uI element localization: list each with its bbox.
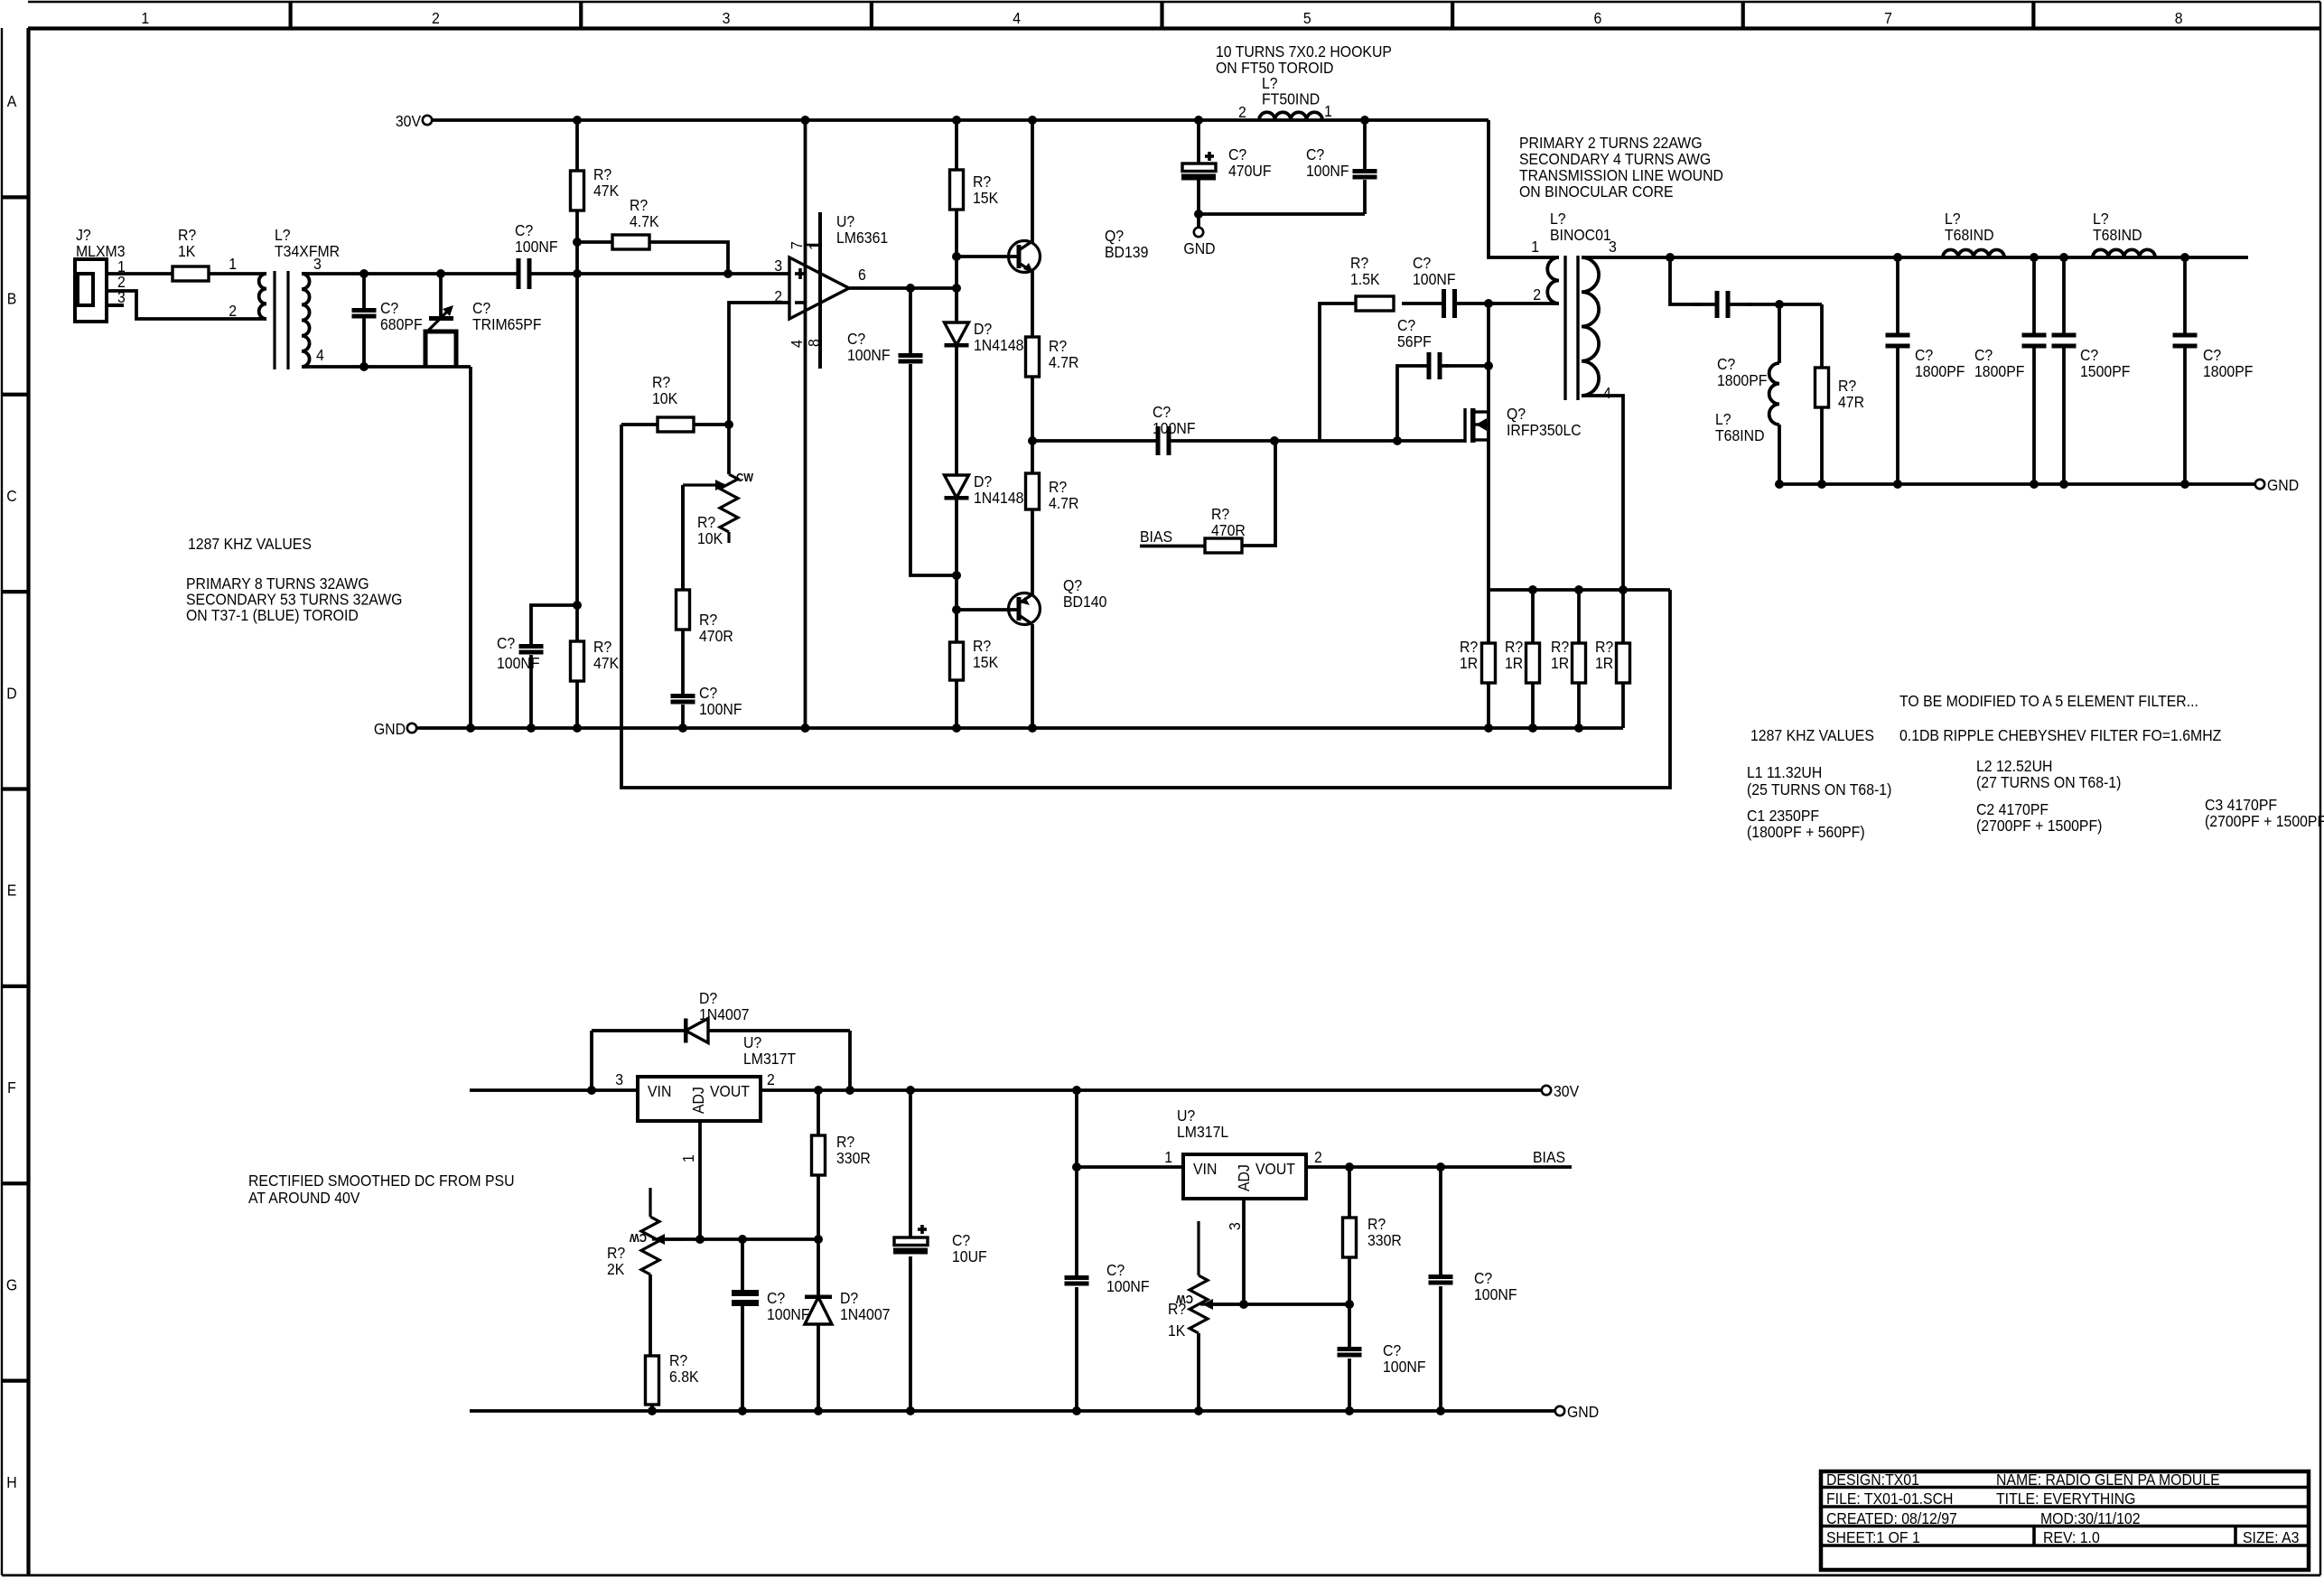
svg-text:100NF: 100NF <box>497 654 540 672</box>
svg-text:2: 2 <box>1533 285 1541 303</box>
node pin4-GND <box>801 724 810 733</box>
svg-text:SIZE: A3: SIZE: A3 <box>2243 1528 2299 1546</box>
svg-text:CREATED: 08/12/97: CREATED: 08/12/97 <box>1826 1509 1957 1527</box>
svg-text:TO BE MODIFIED TO A 5 ELEMENT: TO BE MODIFIED TO A 5 ELEMENT FILTER... <box>1899 692 2198 710</box>
wire divider chain upper <box>955 257 958 322</box>
connector J? MLXM3 <box>75 226 126 322</box>
svg-text:1R: 1R <box>1551 654 1569 672</box>
svg-text:AT AROUND 40V: AT AROUND 40V <box>248 1189 360 1207</box>
wire BINOC pin3 to filter <box>1582 256 2248 259</box>
capacitor C? 1500PF shunt <box>2052 253 2131 489</box>
note text L1 <box>1747 763 1891 798</box>
svg-text:100NF: 100NF <box>767 1305 810 1323</box>
node rail-15K <box>952 116 961 125</box>
svg-text:1287 KHZ VALUES: 1287 KHZ VALUES <box>1750 726 1874 744</box>
wire feedback sense <box>621 425 1670 788</box>
svg-text:15K: 15K <box>973 653 999 671</box>
note text C2 <box>1976 800 2102 835</box>
svg-text:3: 3 <box>615 1070 623 1088</box>
node gate line-bias <box>1270 436 1279 445</box>
label C? 470UF <box>1228 145 1272 180</box>
wire divider chain to BD140 base <box>955 575 958 642</box>
svg-text:REV: 1.0: REV: 1.0 <box>2043 1528 2100 1546</box>
wire LM317L VIN line <box>1077 1165 1183 1169</box>
note text C1 <box>1747 807 1865 841</box>
resistor R? 4.7R lower <box>1026 441 1079 512</box>
svg-text:GND: GND <box>2267 476 2299 494</box>
svg-text:VIN: VIN <box>648 1082 671 1100</box>
svg-text:2K: 2K <box>607 1260 625 1278</box>
transistor Q? BD140 <box>957 509 1106 728</box>
svg-text:100NF: 100NF <box>1383 1358 1426 1376</box>
wire ADJ node line <box>661 1237 818 1241</box>
wire PSU input line <box>470 1088 638 1092</box>
node pin2-10K <box>724 420 733 429</box>
node drain-1.5K line <box>1484 299 1493 308</box>
svg-text:GND: GND <box>374 720 406 738</box>
power input GND terminal (470UF) <box>1181 120 1216 214</box>
node 47K-4.7K junction <box>573 238 582 247</box>
svg-text:1: 1 <box>1531 238 1539 256</box>
wire gate line <box>1274 439 1465 443</box>
svg-text:470R: 470R <box>1211 521 1246 539</box>
resistor R? 10K feedback <box>621 373 729 432</box>
svg-text:GND: GND <box>1183 239 1215 257</box>
svg-text:T68IND: T68IND <box>1945 226 1994 244</box>
note text L2 <box>1976 757 2121 791</box>
resistor R? 1R d <box>1595 590 1630 728</box>
svg-text:1R: 1R <box>1595 654 1613 672</box>
inductor L? T68IND tank <box>1715 304 1779 484</box>
wire op-amp output pin6 <box>849 286 957 290</box>
svg-text:VOUT: VOUT <box>1255 1160 1295 1178</box>
resistor R? 470R bias feed <box>1205 441 1275 553</box>
resistor R? 47K top bias <box>571 120 620 242</box>
node pin3-680PF <box>359 269 369 278</box>
node pin4-680PF <box>359 362 369 371</box>
svg-text:7: 7 <box>1884 9 1892 27</box>
svg-text:FILE: TX01-01.SCH: FILE: TX01-01.SCH <box>1826 1489 1953 1508</box>
svg-text:2: 2 <box>1238 103 1246 121</box>
capacitor C? 100NF output coupling <box>1032 403 1274 455</box>
wire op-amp pin2 <box>729 303 789 425</box>
svg-text:R?: R? <box>1168 1300 1186 1318</box>
node 1R-gnd c <box>1574 724 1583 733</box>
inductor L? T68IND filter 1 <box>1943 210 2004 257</box>
svg-text:1: 1 <box>679 1154 697 1162</box>
svg-text:1K: 1K <box>1168 1321 1186 1340</box>
node bias-100NF <box>1436 1162 1445 1172</box>
svg-text:1R: 1R <box>1505 654 1523 672</box>
net label BIAS right <box>1528 1148 1572 1167</box>
svg-text:NAME: RADIO GLEN PA MODULE: NAME: RADIO GLEN PA MODULE <box>1996 1471 2220 1489</box>
svg-text:100NF: 100NF <box>847 346 891 364</box>
capacitor C? 100NF op-amp output snubber <box>847 288 957 575</box>
svg-text:ON FT50 TOROID: ON FT50 TOROID <box>1216 59 1333 77</box>
node gnd-100NF <box>527 724 536 733</box>
svg-text:L1 11.32UH: L1 11.32UH <box>1747 763 1822 781</box>
svg-text:1R: 1R <box>1460 654 1478 672</box>
svg-text:VIN: VIN <box>1193 1160 1217 1178</box>
resistor R? 330R adj upper <box>812 1090 871 1239</box>
resistor R? 1R c <box>1551 590 1586 728</box>
svg-text:6: 6 <box>1594 9 1602 27</box>
svg-text:GND: GND <box>1567 1403 1599 1421</box>
diode D? 1N4148 lower <box>945 472 1024 575</box>
svg-text:1: 1 <box>1164 1148 1172 1166</box>
node lm317l-vin <box>1072 1162 1081 1172</box>
node 56PF-drain <box>1484 361 1493 370</box>
wire MLXM3 pin2 to T34XFMR pin2 <box>107 291 245 319</box>
svg-text:100NF: 100NF <box>699 700 742 718</box>
svg-text:F: F <box>7 1078 16 1097</box>
svg-text:CW: CW <box>736 471 753 484</box>
resistor R? 1R b <box>1505 590 1540 728</box>
svg-text:3: 3 <box>1226 1222 1244 1230</box>
svg-text:ADJ: ADJ <box>689 1087 707 1114</box>
svg-text:FT50IND: FT50IND <box>1262 90 1320 108</box>
svg-text:(2700PF + 1500PF): (2700PF + 1500PF) <box>2205 812 2324 830</box>
potentiometer R? 2K <box>607 1188 685 1356</box>
svg-text:T34XFMR: T34XFMR <box>275 242 340 260</box>
svg-text:47R: 47R <box>1838 393 1864 411</box>
capacitor C? 100NF adj bypass <box>732 1235 810 1415</box>
svg-text:4.7R: 4.7R <box>1049 494 1078 512</box>
note text 1287 KHZ VALUES left <box>188 535 312 553</box>
svg-text:1500PF: 1500PF <box>2080 362 2130 380</box>
wire T34XFMR pin4 line <box>302 365 471 369</box>
node divider-BD140 base <box>952 605 961 614</box>
svg-text:(1800PF + 560PF): (1800PF + 560PF) <box>1747 823 1865 841</box>
node output-emitters <box>1028 436 1037 445</box>
svg-text:0.1DB RIPPLE CHEBYSHEV FILTER: 0.1DB RIPPLE CHEBYSHEV FILTER FO=1.6MHZ <box>1899 726 2221 744</box>
node rail-100NF <box>1360 116 1369 125</box>
node src-1R3 <box>1574 585 1583 594</box>
resistor R? 4.7R upper <box>1026 337 1079 377</box>
svg-text:E: E <box>7 882 17 900</box>
node gnd-divider <box>952 724 961 733</box>
wire MLXM3 pin1 to R? 1K <box>107 272 173 275</box>
note text TO BE MODIFIED <box>1899 692 2198 710</box>
svg-text:ADJ: ADJ <box>1235 1164 1253 1191</box>
node vin-diode <box>587 1086 596 1095</box>
node 1R-gnd a <box>1484 724 1493 733</box>
note text RECTIFIED SMOOTHED DC <box>248 1172 515 1207</box>
svg-text:T68IND: T68IND <box>1715 426 1765 444</box>
node 6.8K-gnd <box>648 1406 657 1415</box>
regulator U? LM317T <box>615 1033 796 1239</box>
svg-text:100NF: 100NF <box>1306 162 1349 180</box>
svg-text:100NF: 100NF <box>1106 1277 1150 1295</box>
node adj2-tap <box>1239 1300 1248 1309</box>
svg-text:BD140: BD140 <box>1063 593 1106 611</box>
node gnd-trimmer <box>466 724 475 733</box>
wire rail to BINOC pin1 <box>1489 120 1554 257</box>
svg-text:LM6361: LM6361 <box>836 229 888 247</box>
node gnd-47K <box>573 724 582 733</box>
svg-text:30V: 30V <box>396 112 422 130</box>
transformer L? T34XFMR <box>229 226 340 369</box>
transformer L? BINOC01 <box>1531 210 1617 402</box>
svg-text:MOD:30/11/102: MOD:30/11/102 <box>2040 1509 2141 1527</box>
svg-text:6.8K: 6.8K <box>669 1368 699 1386</box>
node rail-BD139-collector <box>1028 116 1037 125</box>
node input-47K <box>573 269 582 278</box>
power terminal 30V (top rail) <box>396 112 432 130</box>
svg-text:A: A <box>7 92 17 110</box>
svg-text:RECTIFIED SMOOTHED DC FROM PSU: RECTIFIED SMOOTHED DC FROM PSU <box>248 1172 515 1190</box>
capacitor C? 1800PF shunt 1 <box>1886 253 1965 489</box>
node vout-330R <box>814 1086 823 1095</box>
svg-text:1.5K: 1.5K <box>1350 270 1380 288</box>
svg-text:BIAS: BIAS <box>1533 1148 1565 1166</box>
resistor R? 6.8K <box>646 1351 700 1411</box>
svg-text:1800PF: 1800PF <box>1915 362 1965 380</box>
ground terminal GND filter <box>2255 476 2299 494</box>
capacitor C? 100NF LM317L input <box>1065 1167 1150 1415</box>
svg-text:1800PF: 1800PF <box>1974 362 2024 380</box>
svg-text:8: 8 <box>2175 9 2183 27</box>
wire 47K junction down to input line <box>575 242 579 274</box>
node adj-330R <box>814 1235 823 1244</box>
svg-text:BIAS: BIAS <box>1140 528 1172 546</box>
resistor R? 330R adj lower <box>1343 1167 1402 1304</box>
svg-text:1800PF: 1800PF <box>2203 362 2253 380</box>
node adj2-330R <box>1345 1300 1354 1309</box>
diode D? 1N4007 adj clamp <box>805 1239 890 1415</box>
node src-1R2 <box>1528 585 1537 594</box>
capacitor C? 100NF bias output <box>1429 1167 1517 1415</box>
node divider-BD139 base <box>952 252 961 261</box>
svg-text:TRIM65PF: TRIM65PF <box>472 315 542 333</box>
resistor R? 47K lower bias <box>571 605 620 728</box>
svg-text:BINOC01: BINOC01 <box>1550 226 1611 244</box>
svg-text:2: 2 <box>1314 1148 1322 1166</box>
wire 30V rail <box>432 118 1489 122</box>
wire LM317L VIN drop <box>1075 1090 1078 1167</box>
op-amp U? LM6361 <box>774 120 888 728</box>
wire LM317L adj line <box>1210 1303 1349 1306</box>
svg-text:4: 4 <box>1603 384 1611 402</box>
note text PRIMARY 2 TURNS <box>1519 134 1723 201</box>
svg-text:4: 4 <box>1013 9 1021 27</box>
svg-text:ON BINOCULAR CORE: ON BINOCULAR CORE <box>1519 182 1674 201</box>
node rail-47K <box>573 116 582 125</box>
svg-text:4.7K: 4.7K <box>630 212 659 230</box>
node lower-bias jog <box>573 601 582 610</box>
wire BINOC pin4 to source bus <box>1582 396 1623 590</box>
svg-text:5: 5 <box>1303 9 1311 27</box>
svg-text:LM317T: LM317T <box>743 1050 796 1068</box>
svg-text:G: G <box>6 1276 17 1294</box>
wire PSU VOUT line <box>761 1088 1542 1092</box>
MOSFET source bus <box>1489 588 1670 592</box>
svg-text:4.7R: 4.7R <box>1049 353 1078 371</box>
wire pin4 to GND rail <box>469 367 472 728</box>
svg-text:1N4007: 1N4007 <box>840 1305 890 1323</box>
svg-text:3: 3 <box>313 255 322 273</box>
wire LM317L VOUT BIAS line <box>1306 1165 1572 1169</box>
power terminal 30V PSU <box>1542 1082 1580 1100</box>
node out-divider <box>952 284 961 293</box>
svg-text:2: 2 <box>767 1070 775 1088</box>
svg-text:1: 1 <box>1324 102 1332 120</box>
svg-text:15K: 15K <box>973 189 999 207</box>
svg-text:3: 3 <box>723 9 731 27</box>
note text 1287 KHZ VALUES right <box>1750 726 1874 744</box>
svg-text:10UF: 10UF <box>952 1247 987 1265</box>
svg-text:B: B <box>7 290 17 308</box>
node rail-pin7 <box>801 116 810 125</box>
svg-text:(25 TURNS ON T68-1): (25 TURNS ON T68-1) <box>1747 780 1891 798</box>
svg-text:(27 TURNS ON T68-1): (27 TURNS ON T68-1) <box>1976 773 2121 791</box>
svg-text:4: 4 <box>316 346 324 364</box>
node 470UF-gnd stub <box>1194 210 1203 219</box>
svg-text:2: 2 <box>432 9 440 27</box>
node main-tank <box>1666 253 1675 262</box>
node divider jog <box>952 571 961 580</box>
capacitor C? 680PF <box>352 274 423 367</box>
potentiometer R? 10K gain trim <box>683 425 753 590</box>
diode D? 1N4148 upper <box>945 288 1024 475</box>
node rail-470UF <box>1194 116 1203 125</box>
node vout-LM317L <box>1072 1086 1081 1095</box>
regulator U? LM317L <box>1164 1106 1322 1304</box>
svg-text:LM317L: LM317L <box>1177 1123 1228 1141</box>
svg-text:100NF: 100NF <box>1413 270 1456 288</box>
resistor R? 4.7K <box>577 196 728 274</box>
svg-text:100NF: 100NF <box>515 238 558 256</box>
capacitor C? 1800PF shunt 2 <box>1974 253 2047 489</box>
note text C3 <box>2205 796 2324 830</box>
capacitor C? 100NF below 470R <box>671 684 742 728</box>
capacitor C? 100NF input coupling <box>515 221 558 289</box>
resistor R? 15K lower <box>950 637 999 728</box>
svg-text:1K: 1K <box>178 242 196 260</box>
svg-text:C?: C? <box>497 634 515 652</box>
svg-text:1N4148: 1N4148 <box>974 336 1023 354</box>
svg-text:7: 7 <box>788 241 806 249</box>
wire 470UF-100NF bottom link <box>1199 212 1365 216</box>
svg-text:BD139: BD139 <box>1105 243 1148 261</box>
node vout-diode <box>845 1086 854 1095</box>
svg-text:3: 3 <box>774 257 782 275</box>
capacitor C? 100NF to BINOC <box>1402 254 1497 318</box>
svg-text:IRFP350LC: IRFP350LC <box>1507 421 1582 439</box>
node gnd-470R <box>678 724 687 733</box>
svg-text:4: 4 <box>788 340 806 348</box>
inductor L? FT50IND <box>1238 74 1332 121</box>
svg-text:2: 2 <box>229 302 237 320</box>
potentiometer R? 1K bias set <box>1168 1221 1233 1415</box>
capacitor C? 100NF lower bypass <box>497 605 577 728</box>
svg-text:(2700PF + 1500PF): (2700PF + 1500PF) <box>1976 817 2102 835</box>
svg-text:6: 6 <box>858 266 866 284</box>
svg-text:D: D <box>6 684 16 702</box>
ground terminal GND decoupling <box>1183 214 1215 257</box>
note text PRIMARY 8 TURNS <box>186 574 402 624</box>
svg-text:100NF: 100NF <box>1474 1285 1517 1303</box>
transistor Q? BD139 <box>957 120 1148 337</box>
resistor R? 15K upper <box>950 120 999 257</box>
wire input line down to lower bias <box>575 274 579 605</box>
node src-1R4 <box>1619 585 1628 594</box>
node input-4.7K <box>723 269 733 278</box>
wire input node to op-amp <box>527 272 789 275</box>
filter ground bus <box>1779 482 2254 486</box>
ground terminal GND main <box>374 720 416 738</box>
svg-text:330R: 330R <box>836 1149 871 1167</box>
svg-text:56PF: 56PF <box>1397 332 1432 350</box>
svg-text:3: 3 <box>1609 238 1617 256</box>
trimmer capacitor C? TRIM65PF <box>425 274 542 367</box>
svg-text:470R: 470R <box>699 627 733 645</box>
svg-text:680PF: 680PF <box>380 315 423 333</box>
capacitor C? 1800PF tank series <box>1670 257 1822 389</box>
svg-text:30V: 30V <box>1554 1082 1580 1100</box>
title block <box>1821 1471 2309 1570</box>
resistor R? 470R op-amp load <box>677 485 733 694</box>
svg-text:1287 KHZ VALUES: 1287 KHZ VALUES <box>188 535 312 553</box>
svg-text:SHEET:1 OF 1: SHEET:1 OF 1 <box>1826 1528 1920 1546</box>
wire T34XFMR pin3 line <box>302 272 520 275</box>
svg-text:C: C <box>6 487 16 505</box>
svg-text:330R: 330R <box>1367 1231 1402 1249</box>
wire PSU ground rail <box>470 1409 1555 1413</box>
capacitor C? 1800PF shunt 3 <box>2173 253 2254 489</box>
wire R? 1K to T34XFMR pin1 <box>209 272 245 275</box>
svg-text:1N4148: 1N4148 <box>974 489 1023 507</box>
node out-100NF <box>906 284 915 293</box>
resistor R? 1R a <box>1460 590 1496 728</box>
note text 10 TURNS <box>1216 42 1392 77</box>
svg-text:10K: 10K <box>652 389 678 407</box>
svg-text:TITLE: EVERYTHING: TITLE: EVERYTHING <box>1996 1489 2135 1508</box>
net label BIAS left <box>1140 528 1205 546</box>
svg-text:DESIGN:TX01: DESIGN:TX01 <box>1826 1471 1919 1489</box>
wire 1.5K line to BINOC pin2 <box>1489 302 1554 305</box>
svg-text:H: H <box>6 1473 16 1491</box>
svg-text:470UF: 470UF <box>1228 162 1272 180</box>
node tank L-gnd <box>1775 480 1784 489</box>
svg-text:1: 1 <box>229 255 237 273</box>
svg-text:10K: 10K <box>697 529 723 547</box>
node pin3-trimmer <box>436 269 445 278</box>
resistor R? 1K <box>173 226 209 281</box>
svg-text:T68IND: T68IND <box>2093 226 2142 244</box>
svg-text:VOUT: VOUT <box>710 1082 750 1100</box>
wire emitter junction <box>1031 377 1034 441</box>
diode D? 1N4007 protection <box>592 989 850 1090</box>
capacitor C? 10UF output <box>893 1090 987 1415</box>
inductor L? T68IND filter 2 <box>2093 210 2155 257</box>
node 1R-gnd b <box>1528 724 1537 733</box>
capacitor C? 100NF adj2 bypass <box>1338 1304 1426 1415</box>
resistor R? 47R tank damp <box>1815 304 1865 484</box>
wire GND rail <box>416 726 1623 730</box>
svg-text:1: 1 <box>141 9 149 27</box>
svg-text:ON T37-1 (BLUE) TOROID: ON T37-1 (BLUE) TOROID <box>186 606 359 624</box>
node BD140 collector GND <box>1028 724 1037 733</box>
node bias-330R <box>1345 1162 1354 1172</box>
node tank R-gnd <box>1817 480 1826 489</box>
node 56PF-gate <box>1393 436 1402 445</box>
MOSFET Q? IRFP350LC <box>1465 303 1582 590</box>
ground terminal GND PSU <box>1555 1403 1599 1421</box>
capacitor C? 100NF rail bypass <box>1306 120 1377 214</box>
capacitor C? 56PF gate-drain <box>1397 316 1489 441</box>
note text CHEBYSHEV <box>1899 726 2221 744</box>
